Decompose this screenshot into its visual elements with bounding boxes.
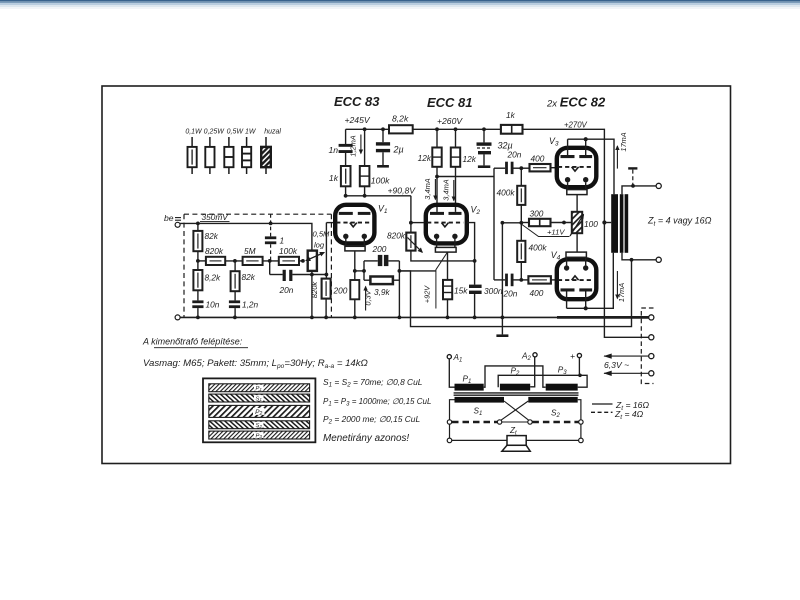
legend resistor huzal (wirewound) <box>261 137 271 174</box>
heavy output segment <box>557 316 649 319</box>
svg-text:82k: 82k <box>205 231 219 241</box>
wire 100k to pot node <box>299 260 303 262</box>
V1 cathode pins <box>343 234 367 239</box>
svg-text:1,2mA: 1,2mA <box>348 135 357 156</box>
svg-text:+: + <box>570 351 575 361</box>
ground bar <box>496 334 508 337</box>
resistor 400 (V4 grid) <box>528 276 551 283</box>
svg-text:17mA: 17mA <box>617 283 626 302</box>
pot wiper arrow <box>306 254 322 261</box>
resistor 12k (left) <box>432 148 441 167</box>
heater wire 6,3V upper <box>604 355 649 357</box>
svg-text:100k: 100k <box>371 176 390 186</box>
svg-text:+270V: +270V <box>564 121 588 130</box>
V3 grid notch <box>572 167 579 171</box>
wire 5M to 100k <box>263 260 279 262</box>
svg-text:be: be <box>164 213 174 223</box>
svg-text:6,3V ~: 6,3V ~ <box>604 360 629 370</box>
wire P1 to P3 link <box>484 366 546 387</box>
resistor 400 (V3 grid) <box>530 164 551 171</box>
heater wire 6,3V lower <box>604 372 649 374</box>
resistor 100k (tone) <box>279 257 299 265</box>
svg-text:820k: 820k <box>205 246 224 256</box>
wire to 20n <box>270 274 283 276</box>
wire 12k1 tap to splitter column <box>437 176 494 178</box>
svg-text:+11V: +11V <box>547 228 565 237</box>
terminal plus <box>577 353 581 357</box>
current arrow 3,4mA (left) <box>423 178 435 199</box>
V2 left grid stub <box>411 222 424 224</box>
wire rail 8,2k to 1k <box>413 128 501 130</box>
resistor 200 (V1 cathode) <box>350 280 359 299</box>
capacitor 32µ <box>483 129 485 142</box>
speaker terminal left <box>447 438 452 443</box>
tap circle left <box>497 420 501 424</box>
wire 820k var to V2 grid row <box>411 251 475 261</box>
svg-text:0,5M: 0,5M <box>313 230 331 239</box>
svg-text:3,4mA: 3,4mA <box>423 178 432 199</box>
wire V3 cathode to pot <box>576 195 578 212</box>
current arrow 3,4mA (right) <box>442 179 454 200</box>
wire grid node to 400k lower <box>520 223 522 241</box>
V1 grid stub <box>326 222 333 224</box>
tube V3 envelope <box>557 148 597 187</box>
voltage pointer +92V <box>436 253 447 309</box>
wire +90,8V to 820k var <box>410 196 412 233</box>
V4 plates <box>561 288 593 291</box>
resistor 8,2k <box>193 270 202 290</box>
V3 cathode pins <box>565 177 589 182</box>
wire grid column to 300n <box>474 261 476 285</box>
wire node to 82k shunt <box>234 261 236 271</box>
svg-text:ECC 83: ECC 83 <box>334 94 380 109</box>
wire 8,2k to 10n <box>197 290 199 300</box>
svg-text:300: 300 <box>530 209 544 219</box>
wire secondary bottom to terminal <box>622 253 656 260</box>
svg-text:200: 200 <box>372 244 387 254</box>
wire V3 anode to transformer <box>568 139 614 194</box>
V4 cathode pins <box>564 265 589 270</box>
3,9k stubs <box>364 279 370 281</box>
V2 grid dashed <box>427 222 463 224</box>
wire 200 to bus <box>354 299 356 317</box>
supply terminal 4 <box>649 371 654 376</box>
svg-text:S1 = S2 = 70me; ∅0,8 CuL: S1 = S2 = 70me; ∅0,8 CuL <box>323 377 423 389</box>
wire to 20n V3 <box>494 167 505 169</box>
wire splitter column <box>493 168 495 280</box>
wire B+ terminal column <box>604 223 648 338</box>
tap circle right edge <box>579 420 583 424</box>
wire P2 to plus link <box>498 375 587 387</box>
svg-text:+260V: +260V <box>437 116 463 126</box>
top window edge blue strip <box>0 0 800 1</box>
dashed leads of capacitor 1 <box>270 214 272 261</box>
wire 300n to bus <box>474 294 476 317</box>
junction dots <box>196 127 607 319</box>
wire node to 820k <box>198 260 206 262</box>
V2 cathode pins <box>434 234 458 239</box>
output terminal bottom <box>656 257 661 262</box>
wire 1k to anode bar <box>345 186 347 196</box>
svg-text:0,1W: 0,1W <box>185 129 203 136</box>
wire 1n to 1k <box>345 153 347 166</box>
svg-text:ECC 81: ECC 81 <box>427 95 473 110</box>
svg-text:1: 1 <box>280 236 285 246</box>
resistor 100k (V1 anode) <box>360 166 370 186</box>
capacitor 200 <box>378 255 389 266</box>
V1 pin leads <box>346 239 365 246</box>
svg-text:20n: 20n <box>507 150 522 160</box>
winding layer P2 <box>209 405 310 417</box>
capacitor 300n <box>469 285 482 294</box>
V1 cathode bracket <box>345 246 365 251</box>
svg-text:300n: 300n <box>484 286 503 296</box>
svg-text:2µ: 2µ <box>393 145 404 155</box>
resistor 820k (grid leak) <box>322 279 331 299</box>
svg-text:+92V: +92V <box>423 285 432 304</box>
potentiometer 0,5M log <box>308 251 317 271</box>
svg-text:17mA: 17mA <box>619 132 628 151</box>
resistor 820k (variable) <box>406 233 415 251</box>
wire 820k to 5M <box>225 260 242 262</box>
svg-text:P2 = 2000 me; ∅0,15 CuL: P2 = 2000 me; ∅0,15 CuL <box>323 414 420 426</box>
capacitor 20n (to V4) <box>505 274 513 287</box>
RC loop left leg <box>363 261 365 280</box>
RC loop right leg to bus <box>398 261 400 318</box>
winding stack frame <box>203 378 315 442</box>
capacitor 1n <box>339 144 353 153</box>
legend dashed line <box>591 411 613 413</box>
main bus wire <box>180 316 649 318</box>
wire pot node to bus <box>311 275 313 318</box>
svg-text:3,4mA: 3,4mA <box>442 179 451 200</box>
wire V1 grid column <box>325 223 327 279</box>
wire secondary top to terminal <box>622 186 656 194</box>
wire 100k to anode bar <box>364 186 366 196</box>
winding layer P1 <box>209 384 310 392</box>
secondary right leg <box>578 400 581 438</box>
label 350mV <box>200 212 230 222</box>
voltage arrow 0,3V <box>364 287 373 311</box>
secondary series link <box>502 421 528 423</box>
supply terminal 3 <box>649 354 654 359</box>
secondary bar S2 <box>528 397 577 403</box>
svg-text:400: 400 <box>531 154 545 164</box>
tube V4 envelope <box>557 259 597 299</box>
V2 pin leads <box>437 239 455 248</box>
wire 20n to grid node <box>292 274 326 276</box>
schematic border frame <box>102 86 731 464</box>
V3 plates <box>561 155 593 158</box>
winding layer S1 <box>209 394 310 402</box>
loudspeaker <box>502 436 530 452</box>
V4 anode leads <box>567 292 586 309</box>
junction dots transformer <box>630 184 635 262</box>
wire pot to V4 cathode <box>576 233 578 252</box>
secondary left leg <box>450 400 455 439</box>
resistor 12k (right) <box>451 148 460 167</box>
legend resistor 1W <box>242 137 251 174</box>
legend resistor 0,25W <box>205 137 214 174</box>
primary bar P2 <box>500 384 530 391</box>
svg-text:0,3V: 0,3V <box>364 289 373 305</box>
svg-text:15k: 15k <box>454 286 468 296</box>
wire secondary feedback drop <box>399 260 631 327</box>
svg-text:1,2n: 1,2n <box>242 300 259 310</box>
svg-text:1n: 1n <box>328 145 338 155</box>
dashed box top <box>184 213 331 215</box>
wire 12k branch 1 <box>436 129 438 147</box>
V3 grid dashed <box>558 166 594 168</box>
svg-text:400: 400 <box>530 288 544 298</box>
supply terminal 1 <box>649 315 654 320</box>
wire ground column <box>501 223 503 335</box>
svg-text:+245V: +245V <box>345 115 371 125</box>
input terminal bottom <box>175 315 180 320</box>
primary bar P3 <box>546 384 578 391</box>
speaker terminal right <box>579 438 584 443</box>
core lines <box>454 393 579 395</box>
wire +90,8V node <box>346 195 411 197</box>
svg-text:huzal: huzal <box>264 129 281 136</box>
svg-text:A kimenőtrafó felépítése:: A kimenőtrafó felépítése: <box>142 337 243 347</box>
terminal A2 <box>533 353 537 357</box>
wire 100k node down <box>269 261 271 275</box>
winding layer S2 <box>209 421 310 429</box>
legend resistor 0,1W <box>188 137 197 174</box>
terminal A1 <box>447 355 451 359</box>
wire 100k branch <box>364 129 366 166</box>
resistor 82k (shunt) <box>231 271 240 291</box>
speaker dashed link (4 ohm) <box>452 421 579 424</box>
capacitor 10n <box>192 300 203 308</box>
dashed box right <box>330 214 332 317</box>
wire A1 to P1 <box>449 359 454 387</box>
wire 15k to bus <box>447 299 449 317</box>
V4 cathode bracket <box>566 252 586 257</box>
primary bar P1 <box>455 384 484 391</box>
svg-text:400k: 400k <box>497 188 516 198</box>
wire 82k shunt to 1,2n <box>234 291 236 300</box>
tap circle left edge <box>447 420 451 424</box>
V1 plates <box>339 212 371 215</box>
svg-text:0,5W: 0,5W <box>227 129 245 136</box>
svg-text:S1: S1 <box>255 396 262 402</box>
resistor 1k (supply) <box>501 125 523 134</box>
wire 400k to grid node <box>520 205 522 223</box>
resistor 5M <box>243 257 263 265</box>
wire 1,2n to bus <box>234 308 236 317</box>
wire 300 to hum pot <box>551 222 572 224</box>
wire 400 to V3 grid <box>551 167 557 169</box>
wire 400 to V4 grid <box>551 279 556 281</box>
tube V1 envelope <box>335 205 374 244</box>
capacitor 20n (feedback) <box>283 270 293 281</box>
svg-text:820k: 820k <box>310 281 319 299</box>
V2 right grid stub <box>467 223 475 261</box>
svg-text:350mV: 350mV <box>202 212 230 222</box>
wire V2 right grid node to ground column <box>502 222 521 224</box>
svg-text:8,2k: 8,2k <box>392 114 409 124</box>
legend solid line <box>592 403 613 405</box>
svg-text:100: 100 <box>584 219 598 229</box>
svg-text:1k: 1k <box>329 173 339 183</box>
svg-text:20n: 20n <box>503 289 518 299</box>
svg-text:5M: 5M <box>244 246 256 256</box>
secondary cross links <box>501 401 529 420</box>
svg-text:400k: 400k <box>529 243 548 253</box>
dashed connector bracket <box>641 308 653 384</box>
svg-text:1k: 1k <box>506 110 516 120</box>
current arrow 1,2mA <box>348 135 361 157</box>
wire input to volume pot <box>180 223 312 250</box>
svg-text:12k: 12k <box>418 153 432 163</box>
tube V2 envelope <box>426 205 467 244</box>
legend resistor 0,5W <box>224 137 233 174</box>
potentiometer 100 <box>572 212 582 233</box>
RC loop top right wire <box>388 260 399 262</box>
resistor 820k <box>206 257 225 265</box>
wire 12k branch 2 <box>455 129 457 147</box>
V3 anode leads <box>568 139 586 155</box>
dashed box left <box>183 214 185 317</box>
secondary bar S1 <box>455 397 505 403</box>
V4 grid dashed <box>558 279 594 281</box>
winding notes <box>323 377 431 444</box>
wire +245V rail <box>346 128 389 130</box>
svg-text:P3: P3 <box>255 433 262 439</box>
resistor 400k (upper) <box>517 186 525 205</box>
capacitor 20n (to V3) <box>505 162 513 174</box>
leader +11V <box>521 224 570 237</box>
svg-text:200: 200 <box>333 286 348 296</box>
wire pot bottom <box>311 271 313 275</box>
RC loop top wire <box>364 260 378 262</box>
V2 plates <box>430 212 462 215</box>
note title <box>142 337 248 348</box>
resistor 3,9k <box>370 277 393 285</box>
svg-text:12k: 12k <box>463 154 477 164</box>
junction dot plus <box>578 374 582 378</box>
V3 pin leads <box>568 182 586 189</box>
svg-text:100k: 100k <box>279 246 298 256</box>
wire 400k lower to 20n V4 node <box>520 262 522 280</box>
wire plus drop <box>578 358 580 376</box>
resistor 1k (V1 anode) <box>341 166 351 186</box>
input polarity marks <box>175 218 181 221</box>
wire 12k2 to V2 plate <box>455 167 457 212</box>
svg-text:log: log <box>314 241 325 250</box>
current arrow 17mA (top) <box>617 132 627 168</box>
wire 12k1 to V2 plate <box>436 167 438 212</box>
V1 grid dashed <box>336 222 371 224</box>
wire 10n to bus <box>197 308 199 317</box>
wire rail 1k to +270V corner <box>523 129 605 222</box>
tap circle mid <box>528 420 532 424</box>
wire 82k drop <box>197 223 199 231</box>
V2 grid notch <box>442 223 449 227</box>
resistor 15k <box>443 280 452 299</box>
wire V2 cathode tap <box>447 252 449 280</box>
transformer primary bar <box>611 194 618 253</box>
svg-text:P2: P2 <box>255 409 262 417</box>
svg-text:Vasmag: M65; Pakett: 35mm; Lpo: Vasmag: M65; Pakett: 35mm; Lpo=30Hy; Ra-… <box>143 358 368 370</box>
resistor 8,2k <box>389 125 413 133</box>
resistor 400k (lower) <box>517 241 525 262</box>
wire 82k to node <box>197 251 199 270</box>
current arrow 17mA (bottom) <box>617 271 626 302</box>
wire 1n branch <box>345 129 347 144</box>
V3 cathode bracket <box>567 190 587 195</box>
wire V4 anode to transformer <box>567 253 614 308</box>
svg-text:20n: 20n <box>279 285 294 295</box>
wire V1 cathode tap <box>354 251 356 280</box>
wire A2 to P2 <box>530 357 535 387</box>
resistor 300 <box>529 219 551 226</box>
capacitor 1,2n <box>229 300 240 308</box>
svg-text:0,25W: 0,25W <box>204 129 226 136</box>
wire divider top <box>520 168 522 186</box>
wire RC node row <box>399 270 435 272</box>
svg-text:8,2k: 8,2k <box>205 273 222 283</box>
transformer secondary bars <box>620 194 624 253</box>
V4 pin leads <box>567 257 586 265</box>
wire 820k leak to bus <box>325 299 327 318</box>
wire 20n to 400 V4 <box>514 279 529 281</box>
output terminal top <box>656 183 661 188</box>
V1 grid notch <box>350 223 357 227</box>
chassis tap symbol <box>628 167 637 186</box>
svg-text:S2: S2 <box>255 423 262 429</box>
820k var arrow <box>408 238 423 253</box>
svg-text:P1: P1 <box>255 386 262 392</box>
wire grid node to 300 <box>521 222 529 224</box>
V2 cathode bracket <box>435 247 456 252</box>
capacitor 2µ <box>382 129 384 142</box>
input terminal top <box>175 222 180 227</box>
wire cathode tap to RC loop <box>355 270 364 272</box>
wire B+ to primary centre <box>604 222 611 224</box>
wire to 20n V4 <box>494 279 505 281</box>
svg-text:3,9k: 3,9k <box>374 287 391 297</box>
capacitor 1 (bridge) <box>265 236 276 244</box>
svg-text:10n: 10n <box>206 300 220 310</box>
legend labels <box>185 129 281 136</box>
svg-text:82k: 82k <box>242 272 256 282</box>
supply terminal 2 <box>649 335 654 340</box>
svg-text:Menetirány azonos!: Menetirány azonos! <box>323 433 409 444</box>
wire 20n to 400 grid stopper <box>514 167 530 169</box>
V4 grid notch <box>572 276 579 280</box>
svg-text:820k: 820k <box>387 231 406 241</box>
svg-text:+90,8V: +90,8V <box>388 186 417 196</box>
resistor 82k (series) <box>193 231 202 251</box>
speaker wire bottom <box>452 439 579 441</box>
winding layer P3 <box>209 431 310 439</box>
svg-text:1W: 1W <box>245 129 257 136</box>
